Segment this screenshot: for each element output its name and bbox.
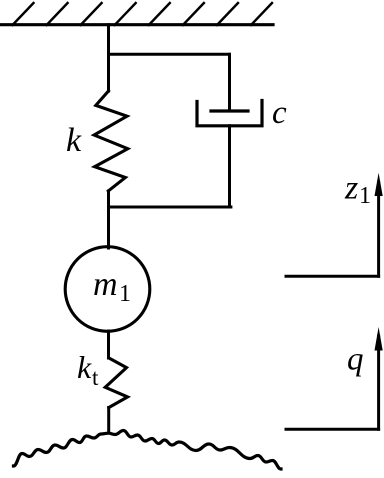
svg-text:t: t (92, 365, 99, 390)
svg-text:q: q (347, 342, 364, 378)
svg-text:k: k (77, 349, 92, 385)
svg-text:1: 1 (119, 281, 131, 307)
svg-text:z: z (344, 170, 358, 207)
svg-text:1: 1 (359, 183, 371, 209)
svg-text:c: c (272, 95, 287, 131)
svg-text:k: k (66, 122, 82, 159)
svg-text:m: m (93, 266, 118, 303)
